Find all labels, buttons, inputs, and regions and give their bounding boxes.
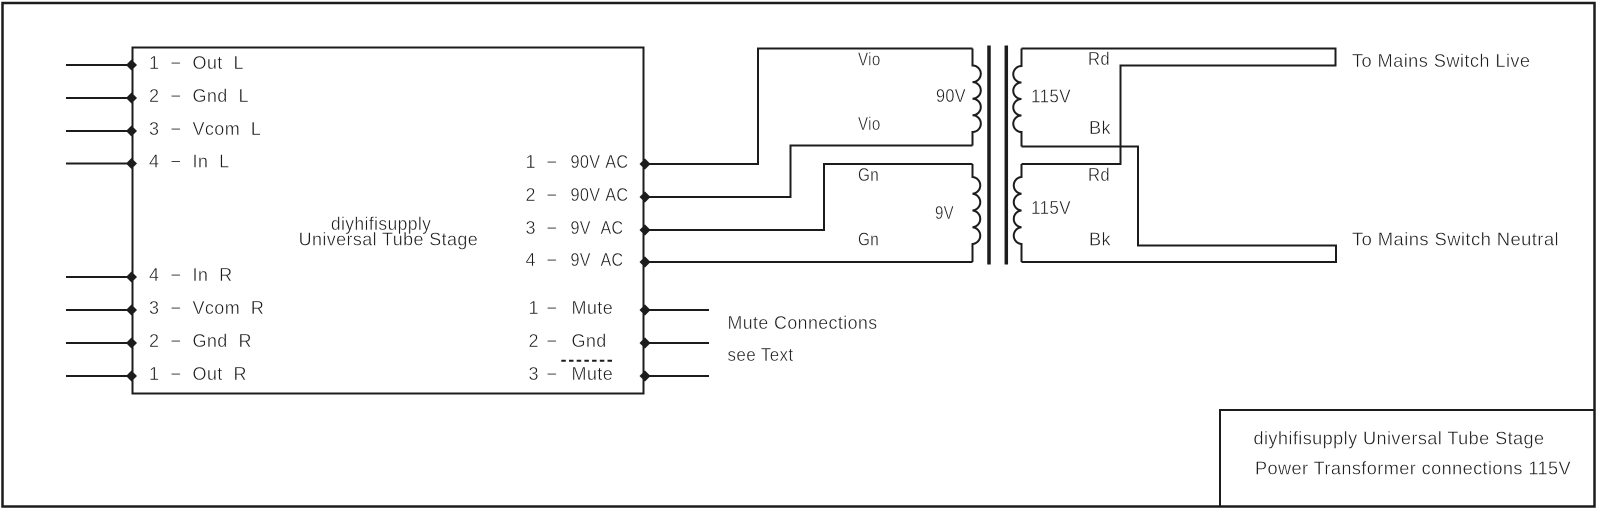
wire: pin 4 In L stub [66,163,133,165]
svg-text:3: 3 [529,364,539,384]
svg-text:Out L: Out L [193,53,244,73]
svg-text:90V AC: 90V AC [571,185,629,205]
op-amp U1: diyhifisupply Universal Tube Stage main module box [133,48,644,394]
svg-text:1: 1 [149,53,159,73]
title block box [1220,410,1595,507]
wire: pin 1 Out R stub [66,375,133,377]
svg-text:Mute: Mute [572,364,614,384]
wire: pin 3 9V AC to 9V primary top (Gn) [644,164,973,230]
svg-text:see Text: see Text [728,345,794,365]
svg-text:−: − [171,86,182,106]
junction pin 1 90V AC [640,159,651,170]
svg-text:−: − [547,331,558,351]
svg-text:Vcom L: Vcom L [193,119,262,139]
svg-text:−: − [547,152,558,172]
svg-text:115V: 115V [1031,198,1071,218]
svg-text:Rd: Rd [1088,165,1110,185]
junction pin 3 Vcom R [126,305,137,316]
svg-text:Mute: Mute [572,298,614,318]
svg-text:Vio: Vio [858,50,881,70]
svg-text:90V: 90V [936,86,966,106]
junction pin 3 Vcom L [126,126,137,137]
svg-text:Vcom R: Vcom R [193,298,265,318]
svg-text:3: 3 [149,119,159,139]
junction pin 1 Out L [126,60,137,71]
svg-text:2: 2 [149,86,159,106]
transformer T1 secondary winding 115V upper [1013,49,1021,147]
svg-text:Gn: Gn [858,165,879,185]
transformer T1 core bar left [987,46,991,265]
svg-text:9V: 9V [935,203,954,223]
wire: pin 3 Vcom R stub [66,309,133,311]
svg-text:Power Transformer connections: Power Transformer connections 115V [1255,459,1571,479]
wire: pin 2 Gnd L stub [66,97,133,99]
svg-text:1: 1 [529,298,539,318]
svg-text:−: − [171,53,182,73]
svg-text:−: − [171,364,182,384]
svg-text:Out R: Out R [193,364,247,384]
svg-text:4: 4 [149,265,159,285]
svg-text:1: 1 [149,364,159,384]
wire: mute pin 3 stub [644,375,710,377]
svg-text:2: 2 [526,185,536,205]
svg-text:−: − [547,298,558,318]
wire: pin 2 Gnd R stub [66,342,133,344]
wire: pin 4 In R stub [66,276,133,278]
junction pin 3 9V AC [640,225,651,236]
transformer T1 primary winding 90V [973,49,981,146]
svg-text:Gnd: Gnd [572,331,607,351]
junction pin 2 Gnd L [126,93,137,104]
svg-text:−: − [547,250,558,270]
svg-text:In R: In R [193,265,233,285]
svg-text:Rd: Rd [1088,49,1110,69]
junction pin 2 Gnd R [126,338,137,349]
svg-text:1: 1 [526,152,536,172]
wire: mute pin 2 stub [644,342,710,344]
transformer T1 core bar right [1005,46,1009,265]
svg-text:3: 3 [526,218,536,238]
junction pin 2 Gnd [640,338,651,349]
wire: pin 4 9V AC to 9V primary bottom (Gn) [644,261,973,263]
svg-text:4: 4 [149,152,159,172]
svg-text:2: 2 [529,331,539,351]
wire: pin 1 Out L stub [66,64,133,66]
svg-text:−: − [171,265,182,285]
svg-text:−: − [547,364,558,384]
svg-text:3: 3 [149,298,159,318]
svg-text:−: − [547,185,558,205]
wire: pin 1 90V AC to 90V primary top (Vio) [644,49,973,165]
junction pin 4 In R [126,272,137,283]
junction pin 1 Out R [126,371,137,382]
wire: pin 3 Vcom L stub [66,130,133,132]
svg-text:2: 2 [149,331,159,351]
svg-text:Gn: Gn [858,230,879,250]
svg-text:Universal Tube Stage: Universal Tube Stage [299,230,479,250]
svg-text:Bk: Bk [1089,118,1112,138]
overline for Mute (dashed) [561,360,614,362]
svg-text:−: − [547,218,558,238]
svg-text:diyhifisupply Universal Tube S: diyhifisupply Universal Tube Stage [1254,429,1545,449]
svg-text:Gnd L: Gnd L [193,86,249,106]
svg-text:9V AC: 9V AC [571,218,624,238]
svg-text:In L: In L [193,152,230,172]
svg-text:Bk: Bk [1089,230,1112,250]
svg-text:Vio: Vio [858,114,881,134]
junction pin 1 Mute [640,305,651,316]
svg-text:Mute Connections: Mute Connections [728,313,878,333]
svg-text:−: − [171,298,182,318]
junction pin 4 9V AC [640,257,651,268]
transformer T1 secondary winding 115V lower [1014,164,1022,262]
svg-text:90V AC: 90V AC [571,152,629,172]
svg-text:To Mains Switch Live: To Mains Switch Live [1352,51,1531,71]
wire: pin 2 90V AC to 90V primary bottom (Vio) [644,146,973,198]
svg-text:4: 4 [526,250,536,270]
svg-text:Gnd R: Gnd R [193,331,252,351]
transformer T1 primary winding 9V [973,164,981,262]
junction pin 4 In L [126,158,137,169]
svg-text:−: − [171,152,182,172]
junction pin 2 90V AC [640,192,651,203]
svg-text:−: − [171,119,182,139]
wire: net Neutral (Bk leads to mains switch neutral) [1022,147,1337,263]
svg-text:−: − [171,331,182,351]
svg-text:9V AC: 9V AC [571,250,624,270]
wire: net Live (Rd leads to mains switch live) [1022,49,1336,165]
svg-text:To Mains Switch Neutral: To Mains Switch Neutral [1352,230,1559,250]
junction pin 3 Mute [640,371,651,382]
wire: mute pin 1 stub [644,309,710,311]
svg-text:115V: 115V [1031,87,1071,107]
